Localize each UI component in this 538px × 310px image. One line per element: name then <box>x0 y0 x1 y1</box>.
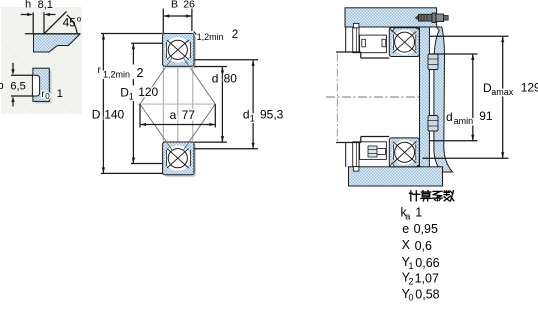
svg-text:120: 120 <box>138 85 158 99</box>
svg-text:1: 1 <box>409 261 414 271</box>
svg-text:91: 91 <box>479 109 493 123</box>
svg-text:d: d <box>212 72 219 86</box>
svg-text:0,95: 0,95 <box>414 222 438 236</box>
svg-text:1,2min: 1,2min <box>103 70 130 80</box>
svg-text:a: a <box>405 212 410 222</box>
svg-text:1,07: 1,07 <box>415 271 439 285</box>
svg-text:0: 0 <box>45 92 50 101</box>
svg-text:2: 2 <box>409 276 414 286</box>
svg-text:h: h <box>25 0 31 11</box>
svg-text:1,2min: 1,2min <box>197 32 224 42</box>
svg-text:140: 140 <box>104 107 124 121</box>
svg-text:1: 1 <box>250 113 255 123</box>
svg-text:1: 1 <box>129 92 134 102</box>
svg-text:8,1: 8,1 <box>38 0 53 11</box>
svg-text:26: 26 <box>183 0 195 11</box>
svg-text:e: e <box>402 222 409 236</box>
svg-text:1: 1 <box>415 206 422 220</box>
svg-text:B: B <box>171 0 178 11</box>
svg-text:129: 129 <box>521 81 538 95</box>
svg-text:0: 0 <box>409 293 414 303</box>
svg-text:b: b <box>0 80 4 92</box>
svg-text:77: 77 <box>182 108 196 122</box>
svg-text:2: 2 <box>232 29 238 41</box>
svg-text:80: 80 <box>224 72 238 86</box>
svg-text:1: 1 <box>57 88 63 100</box>
svg-text:amax: amax <box>491 87 514 97</box>
svg-text:0,6: 0,6 <box>415 239 432 253</box>
svg-text:X: X <box>402 238 411 252</box>
svg-text:0,66: 0,66 <box>415 256 439 270</box>
svg-text:6,5: 6,5 <box>10 81 25 93</box>
svg-text:a: a <box>170 108 177 122</box>
svg-text:r: r <box>98 64 102 76</box>
svg-text:amin: amin <box>454 116 474 126</box>
svg-text:d: d <box>446 110 453 124</box>
svg-text:95,3: 95,3 <box>260 107 284 121</box>
svg-text:d: d <box>243 107 250 121</box>
svg-text:45: 45 <box>63 18 76 30</box>
svg-text:D: D <box>92 107 101 121</box>
svg-text:o: o <box>77 15 82 24</box>
svg-text:2: 2 <box>137 66 144 80</box>
svg-text:0,58: 0,58 <box>415 287 439 301</box>
